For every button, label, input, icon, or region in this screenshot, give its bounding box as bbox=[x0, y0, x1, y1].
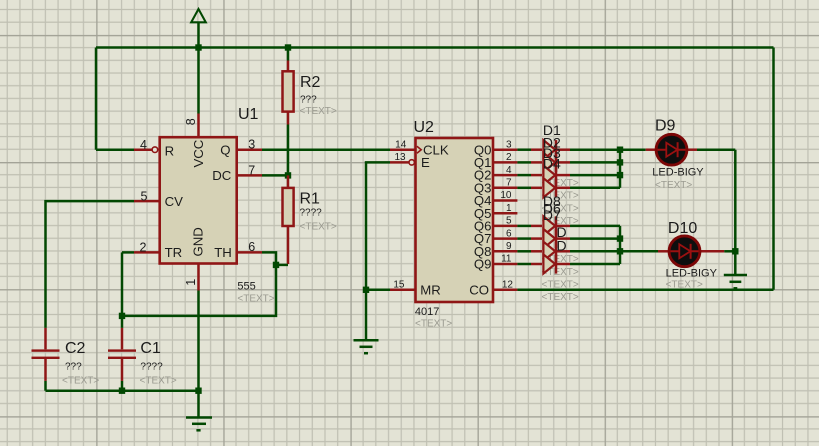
diode D8 bbox=[531, 254, 570, 273]
svg-text:9: 9 bbox=[506, 241, 512, 252]
svg-text:R: R bbox=[165, 143, 175, 158]
junction rail/R2 bbox=[285, 44, 291, 50]
wire bus D1-D4 bbox=[619, 150, 622, 188]
svg-text:U1: U1 bbox=[238, 106, 259, 123]
value C2 ??? bbox=[65, 362, 82, 373]
svg-text:4: 4 bbox=[140, 138, 147, 152]
svg-text:11: 11 bbox=[501, 254, 512, 265]
wire TR stub bbox=[122, 251, 134, 254]
label 555 bbox=[237, 280, 255, 292]
svg-text:U2: U2 bbox=[414, 119, 435, 136]
label D6 partial bbox=[557, 238, 567, 254]
wire node to C1/TR bbox=[122, 265, 276, 316]
diode D2 bbox=[531, 153, 570, 172]
label D9 bbox=[655, 118, 676, 135]
wire bus to D10 bbox=[620, 250, 658, 253]
pin 10 Q4 stub bbox=[493, 199, 517, 202]
pin 9 Q8 stub bbox=[493, 250, 517, 253]
label C2 bbox=[65, 340, 86, 357]
pin 8 VCC stub bbox=[197, 114, 200, 138]
label D3 bbox=[543, 145, 561, 161]
pin numbers U2 bbox=[393, 139, 513, 290]
label D2 bbox=[543, 135, 561, 151]
wire D10 right bbox=[724, 250, 735, 253]
pin 2 TR stub bbox=[134, 251, 160, 254]
counter U2 4017 body bbox=[416, 138, 494, 302]
wire right drop rail to CO bbox=[772, 48, 775, 290]
svg-text:13: 13 bbox=[394, 152, 406, 163]
pin 3 Q stub bbox=[237, 148, 262, 151]
svg-text:DC: DC bbox=[212, 168, 232, 183]
svg-text:LED-BIGY: LED-BIGY bbox=[666, 267, 718, 279]
label R2 TEXT bbox=[300, 106, 337, 117]
wire CV to C2 bbox=[46, 201, 135, 328]
wire node to LED ground bbox=[734, 251, 737, 274]
svg-text:<TEXT>: <TEXT> bbox=[237, 294, 274, 305]
svg-text:????: ???? bbox=[300, 208, 323, 219]
svg-text:14: 14 bbox=[395, 139, 407, 150]
svg-text:TR: TR bbox=[165, 245, 183, 260]
svg-text:D4: D4 bbox=[543, 156, 561, 172]
wire TR down to C1 bbox=[121, 252, 124, 316]
junction bus/D3 bbox=[617, 172, 623, 178]
svg-text:VCC: VCC bbox=[191, 139, 206, 167]
svg-text:6: 6 bbox=[248, 240, 255, 254]
pin 6 TH stub bbox=[237, 251, 262, 254]
wire Q to CLK bbox=[262, 148, 390, 151]
pin 4 Q2 stub bbox=[493, 174, 517, 177]
wire node to MR bbox=[366, 289, 390, 292]
label D4 bbox=[543, 156, 561, 172]
label C2 TEXT bbox=[62, 376, 99, 387]
label R1 bbox=[300, 190, 321, 207]
svg-text:LED-BIGY: LED-BIGY bbox=[652, 167, 704, 179]
wire D out row 7 bbox=[570, 237, 620, 240]
junction DC/R2/R1 bbox=[285, 172, 291, 178]
junction power/rail bbox=[195, 44, 201, 50]
label U2 bbox=[414, 119, 435, 136]
junction E/MR/ground bbox=[363, 287, 369, 293]
label U1 TEXT bbox=[237, 294, 274, 305]
svg-text:6: 6 bbox=[506, 228, 512, 239]
svg-text:C1: C1 bbox=[140, 340, 161, 357]
wire D out row 3 bbox=[570, 187, 620, 190]
junction TR/TH/C1 bbox=[119, 313, 125, 319]
wire D out row 2 bbox=[570, 174, 620, 177]
svg-text:R2: R2 bbox=[300, 74, 321, 91]
svg-text:D9: D9 bbox=[655, 118, 676, 135]
junction GND pin/ground rail bbox=[195, 388, 201, 394]
junction D9/D10/ground bbox=[732, 248, 738, 254]
svg-text:TH: TH bbox=[214, 245, 232, 260]
pin 12 CO stub bbox=[493, 289, 517, 292]
power symbol VCC arrow bbox=[191, 9, 206, 48]
label R1 TEXT bbox=[300, 222, 337, 233]
svg-text:1: 1 bbox=[184, 279, 198, 286]
resistor R1 bbox=[283, 175, 294, 264]
wire rail to R pin bbox=[96, 148, 134, 151]
wire Q2 to D bbox=[517, 174, 531, 177]
diode D3 bbox=[531, 166, 570, 185]
svg-text:<TEXT>: <TEXT> bbox=[62, 376, 99, 387]
label D9 TEXT bbox=[655, 180, 692, 191]
wire Q3 to D bbox=[517, 187, 531, 190]
svg-text:GND: GND bbox=[191, 227, 206, 256]
wire Q1 to D bbox=[517, 161, 531, 164]
value R2 ??? bbox=[300, 95, 317, 106]
label D1 bbox=[543, 122, 561, 138]
pin 13 E stub + bubble bbox=[390, 160, 414, 165]
svg-text:8: 8 bbox=[184, 118, 198, 125]
svg-text:???: ??? bbox=[65, 362, 82, 373]
wire bus to D9 bbox=[620, 148, 646, 151]
resistor R2 bbox=[283, 48, 294, 125]
wire bus D5-D8 bbox=[619, 226, 622, 264]
svg-text:D10: D10 bbox=[668, 220, 697, 237]
wire E to MR node bbox=[366, 162, 390, 289]
junction TH/R1 bbox=[273, 262, 279, 268]
label D10 LED-BIGY bbox=[666, 267, 718, 279]
LED D9 bbox=[646, 134, 697, 165]
label C1 bbox=[140, 340, 161, 357]
svg-text:<TEXT>: <TEXT> bbox=[542, 292, 579, 303]
wire Q0 to D bbox=[517, 148, 531, 151]
wire D out row 8 bbox=[570, 250, 620, 253]
svg-text:2: 2 bbox=[140, 241, 147, 255]
svg-text:5: 5 bbox=[141, 190, 148, 204]
svg-text:15: 15 bbox=[393, 280, 405, 291]
pin 2 Q1 stub bbox=[493, 161, 517, 164]
svg-text:<TEXT>: <TEXT> bbox=[415, 319, 452, 330]
pin 7 Q3 stub bbox=[493, 187, 517, 190]
wire node down to ground bbox=[365, 290, 368, 340]
diode D6 bbox=[531, 229, 570, 248]
value R1 ???? bbox=[300, 208, 323, 219]
wire D9 down to D10 node bbox=[734, 150, 737, 252]
label 4017 bbox=[415, 306, 439, 318]
svg-text:<TEXT>: <TEXT> bbox=[300, 222, 337, 233]
svg-text:2: 2 bbox=[506, 152, 512, 163]
wire C1 to ground rail bbox=[121, 381, 124, 391]
pin 15 MR stub bbox=[390, 289, 416, 292]
wire DC to node bbox=[262, 174, 288, 177]
pin 1 Q5 stub bbox=[493, 212, 517, 215]
label D10 TEXT bbox=[666, 279, 703, 290]
svg-text:Q: Q bbox=[220, 143, 230, 158]
pin 14 CLK stub bbox=[390, 148, 416, 151]
wire power to U1 VCC bbox=[197, 48, 200, 114]
pin 5 Q6 stub bbox=[493, 225, 517, 228]
wire D out row 1 bbox=[570, 161, 620, 164]
svg-text:10: 10 bbox=[500, 190, 512, 201]
svg-text:12: 12 bbox=[502, 280, 514, 291]
svg-text:<TEXT>: <TEXT> bbox=[300, 106, 337, 117]
diode D7 bbox=[531, 242, 570, 261]
label R2 bbox=[300, 74, 321, 91]
label U2 TEXT bbox=[415, 319, 452, 330]
wire node to R1 bottom bbox=[276, 264, 288, 267]
capacitor C2 bbox=[32, 328, 60, 381]
wire D out row 9 bbox=[570, 263, 620, 266]
wire Q7 to D bbox=[517, 237, 531, 240]
svg-text:4: 4 bbox=[506, 165, 512, 176]
svg-text:R1: R1 bbox=[300, 190, 321, 207]
label C1 TEXT bbox=[140, 376, 177, 387]
svg-text:4017: 4017 bbox=[415, 306, 439, 318]
label D8 bbox=[543, 193, 561, 209]
svg-text:????: ???? bbox=[140, 362, 163, 373]
wire Q9 to D bbox=[517, 263, 531, 266]
wire CO to right rail bbox=[517, 289, 773, 292]
svg-text:D: D bbox=[557, 238, 567, 254]
LED D10 bbox=[658, 236, 724, 267]
wire Q6 to D bbox=[517, 225, 531, 228]
svg-text:CV: CV bbox=[165, 194, 184, 209]
wire D9 right bbox=[697, 148, 735, 151]
diode TEXT labels bbox=[542, 178, 579, 303]
svg-text:Q9: Q9 bbox=[474, 257, 492, 272]
junction bus/D7 bbox=[617, 248, 623, 254]
svg-text:<TEXT>: <TEXT> bbox=[140, 376, 177, 387]
svg-text:E: E bbox=[421, 155, 430, 170]
svg-text:1: 1 bbox=[506, 203, 512, 214]
label D9 LED-BIGY bbox=[652, 167, 704, 179]
value C1 ???? bbox=[140, 362, 163, 373]
junction C1/ground rail bbox=[119, 388, 125, 394]
wire D out row 0 bbox=[570, 148, 620, 151]
svg-text:<TEXT>: <TEXT> bbox=[655, 180, 692, 191]
diode D5 bbox=[531, 216, 570, 235]
wire D out row 6 bbox=[570, 225, 620, 228]
pin 11 Q9 stub bbox=[493, 263, 517, 266]
ground (right of LEDs) bbox=[724, 275, 747, 288]
svg-text:CO: CO bbox=[469, 282, 489, 297]
svg-text:7: 7 bbox=[506, 178, 512, 189]
diode D1 bbox=[531, 140, 570, 159]
junction bus/D1 bbox=[617, 147, 623, 153]
pin 6 Q7 stub bbox=[493, 237, 517, 240]
wire TH down bbox=[262, 252, 276, 265]
wire VCC top rail bbox=[96, 46, 774, 49]
label D5 partial bbox=[557, 224, 567, 240]
wire left drop to R pin bbox=[95, 48, 98, 150]
pin numbers U1 bbox=[140, 118, 256, 286]
label D10 bbox=[668, 220, 697, 237]
ground (below U2) bbox=[354, 340, 379, 353]
junction bus/D6 bbox=[617, 235, 623, 241]
pin 4 R stub + bubble bbox=[134, 147, 158, 153]
capacitor C1 bbox=[108, 316, 136, 381]
IC U1 555 timer body bbox=[160, 137, 237, 263]
svg-text:<TEXT>: <TEXT> bbox=[542, 280, 579, 291]
pin 5 CV stub bbox=[134, 200, 160, 203]
svg-text:MR: MR bbox=[420, 282, 441, 297]
svg-text:<TEXT>: <TEXT> bbox=[666, 279, 703, 290]
wire Q8 to D bbox=[517, 250, 531, 253]
diode D4 bbox=[531, 178, 570, 197]
svg-text:3: 3 bbox=[506, 139, 512, 150]
svg-text:D7: D7 bbox=[543, 207, 561, 223]
wire bottom ground rail bbox=[46, 389, 199, 392]
svg-text:3: 3 bbox=[248, 138, 255, 152]
ground (bottom centre) bbox=[186, 418, 212, 431]
junction bus/D2 bbox=[617, 159, 623, 165]
wire C2 to ground rail bbox=[44, 381, 47, 391]
label D6 bbox=[543, 201, 561, 217]
svg-text:C2: C2 bbox=[65, 340, 86, 357]
wire U1 GND down bbox=[197, 291, 200, 418]
pin 3 Q0 stub bbox=[493, 148, 517, 151]
pin 1 GND stub bbox=[197, 264, 200, 291]
svg-text:5: 5 bbox=[506, 216, 512, 227]
label D7 bbox=[543, 207, 561, 223]
pin 7 DC stub bbox=[237, 174, 262, 177]
svg-text:???: ??? bbox=[300, 95, 317, 106]
svg-text:555: 555 bbox=[237, 280, 255, 292]
svg-text:7: 7 bbox=[248, 163, 255, 177]
label U1 bbox=[238, 106, 259, 123]
wire R2 to DC node bbox=[287, 125, 290, 173]
